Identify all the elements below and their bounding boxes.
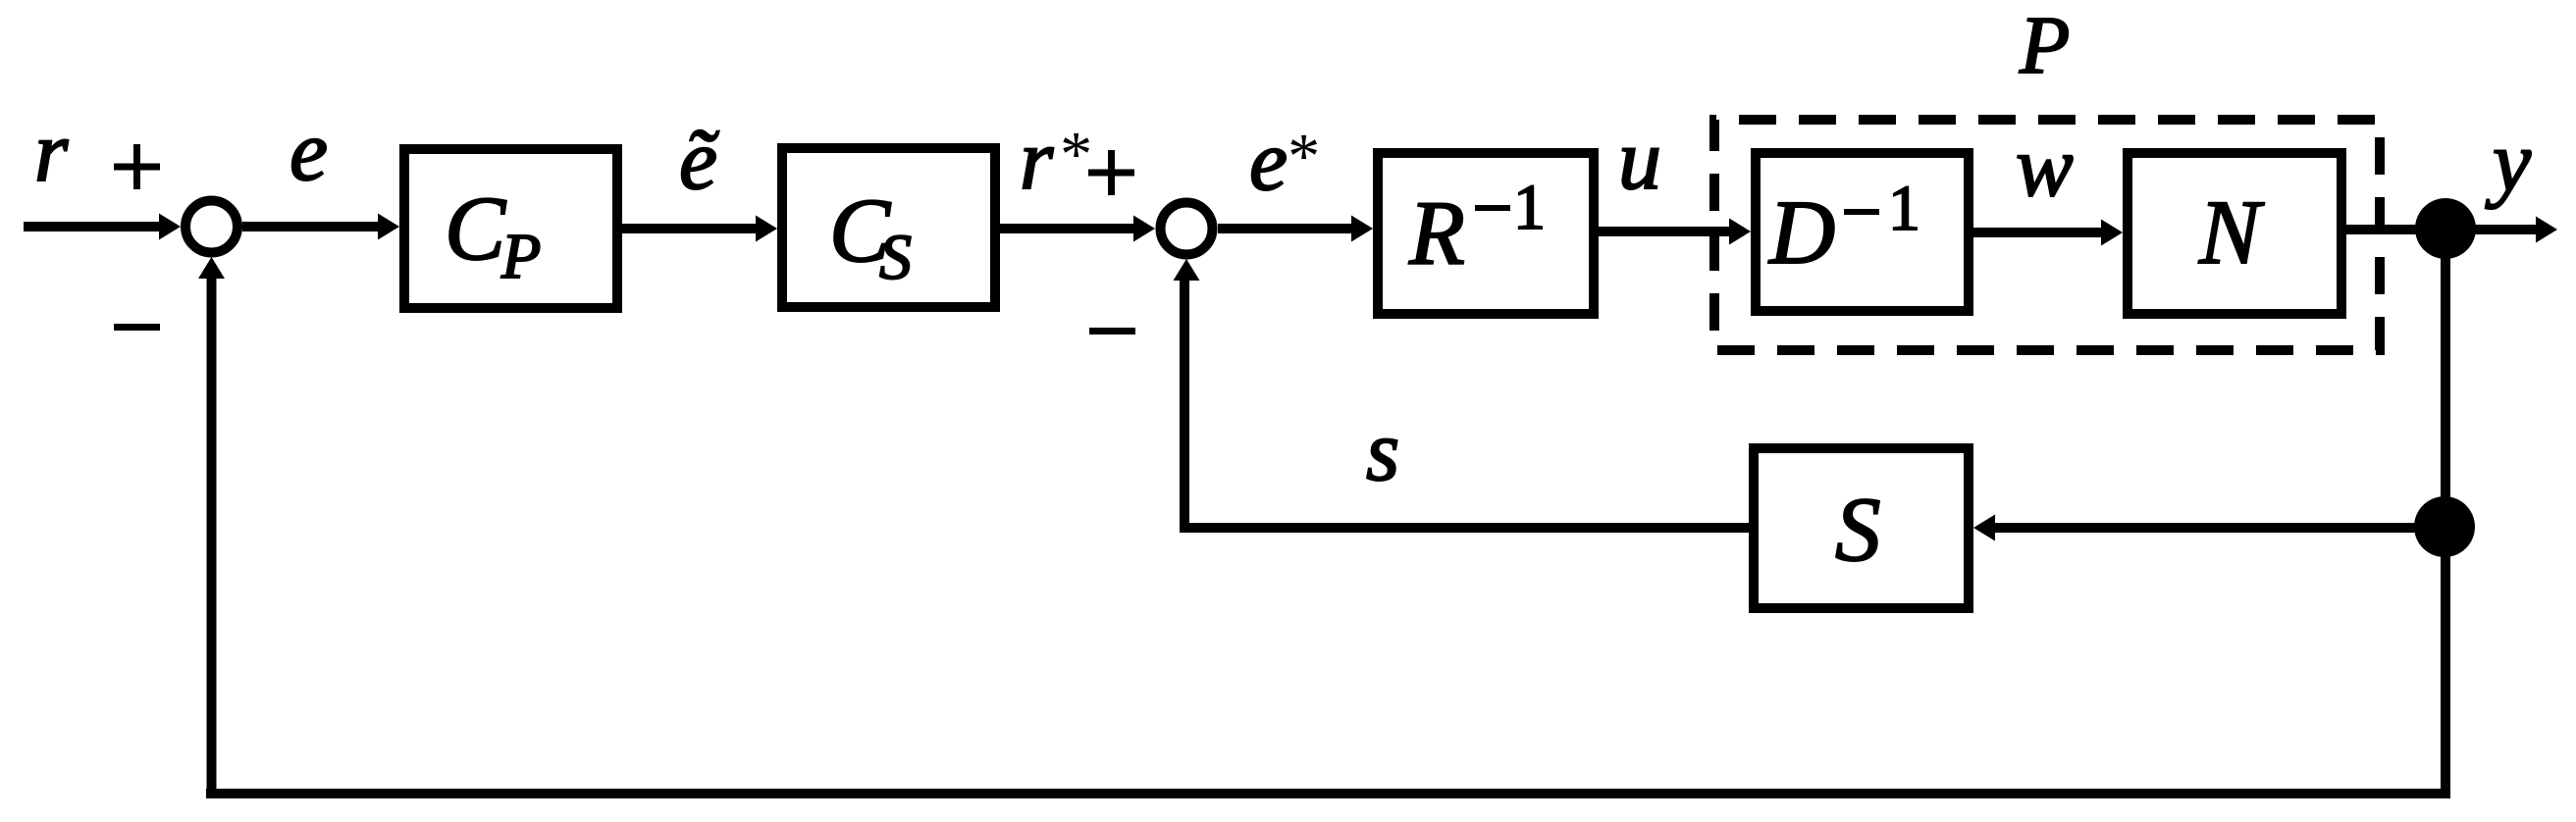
wire: junction 2 to block R^-1: [1218, 224, 1351, 233]
arrowhead into S (pointing left): [1973, 515, 1995, 541]
block D^-1: [1756, 153, 1969, 311]
svg-text:r: r: [34, 105, 69, 200]
svg-text:D: D: [1767, 182, 1835, 283]
svg-text:ẽ: ẽ: [679, 113, 719, 208]
summing junction 1: [185, 201, 237, 253]
block N: [2128, 153, 2341, 314]
plus sign at summing junction 2: [1088, 170, 1134, 177]
svg-text:w: w: [2016, 120, 2074, 215]
wire: junction 1 to block CP: [242, 222, 378, 231]
node: output pickoff dot: [2415, 198, 2476, 259]
wire: vertical from y node down to s node and bottom rail: [2441, 229, 2450, 798]
arrowhead into CP: [378, 214, 399, 240]
arrowhead into junction 2 (from below): [1174, 259, 1200, 281]
svg-text:r: r: [1020, 113, 1054, 208]
node: feedback pickoff dot at S level: [2414, 496, 2475, 557]
svg-text:e: e: [1249, 114, 1288, 209]
arrowhead into CS: [756, 216, 777, 242]
wire: s node to block S: [1995, 523, 2445, 533]
svg-text:*: *: [1057, 119, 1089, 190]
wire: D^-1 to N: [1973, 228, 2101, 237]
svg-text:y: y: [2485, 115, 2532, 210]
wire: CS to junction 2: [1000, 224, 1133, 233]
svg-text:e: e: [289, 104, 328, 199]
wire: R^-1 to D^-1: [1599, 227, 1729, 236]
arrowhead into D^-1: [1729, 219, 1751, 245]
wire: CP to CS: [622, 224, 756, 233]
arrowhead output y: [2536, 217, 2557, 243]
svg-text:R: R: [1408, 183, 1465, 284]
minus sign at summing junction 1: [114, 324, 160, 331]
svg-text:1: 1: [1513, 172, 1546, 243]
block CP: [404, 149, 617, 308]
wire: input r into summing junction 1: [24, 222, 160, 231]
block CS: [782, 148, 995, 307]
arrowhead into junction 1 (from below): [198, 257, 225, 279]
svg-text:S: S: [1835, 480, 1881, 581]
svg-text:s: s: [1366, 404, 1399, 499]
plus sign at summing junction 1: [114, 164, 160, 171]
svg-text:S: S: [879, 222, 912, 293]
svg-text:u: u: [1618, 113, 1661, 208]
wire: bottom feedback rail: [206, 789, 2450, 798]
arrowhead into R^-1: [1351, 216, 1373, 242]
arrowhead into summing junction 1 (left): [159, 214, 181, 240]
summing junction 2: [1161, 203, 1213, 255]
svg-text:P: P: [2019, 0, 2070, 91]
wire: corner up into junction 2: [1180, 280, 1189, 532]
svg-text:C: C: [445, 179, 506, 280]
arrowhead into N: [2101, 220, 2123, 246]
dashed plant box P: [1714, 120, 2380, 350]
svg-text:1: 1: [1888, 173, 1920, 244]
svg-text:*: *: [1285, 121, 1317, 192]
wire: N to output y: [2346, 225, 2536, 234]
minus sign at summing junction 2: [1089, 328, 1135, 334]
svg-text:N: N: [2198, 182, 2265, 283]
block S: [1754, 448, 1969, 608]
svg-text:P: P: [500, 221, 541, 292]
wire: left vertical up into junction 1: [207, 279, 217, 794]
wire: S output left to corner: [1180, 523, 1749, 533]
block R^-1: [1378, 153, 1594, 314]
arrowhead into summing junction 2 (left): [1133, 216, 1155, 242]
